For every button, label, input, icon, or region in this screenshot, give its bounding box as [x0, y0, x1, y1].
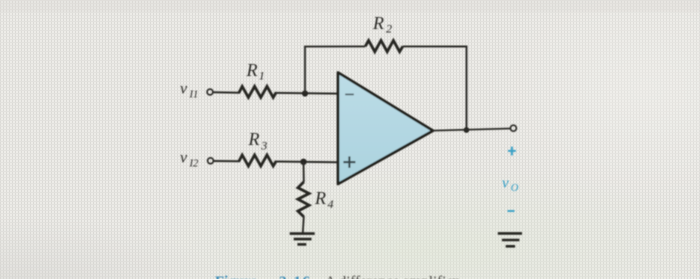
svg-text:v: v	[180, 150, 188, 167]
svg-text:R: R	[246, 60, 258, 80]
svg-text:R: R	[248, 129, 260, 149]
label vI1	[180, 81, 198, 101]
label vI2	[180, 150, 199, 170]
svg-text:4: 4	[328, 197, 334, 211]
terminal vI2	[208, 158, 214, 164]
svg-text:I2: I2	[189, 158, 199, 169]
wire	[214, 160, 240, 162]
svg-text:v: v	[502, 175, 509, 191]
caption Figure 2.16 (cut off at bottom edge)	[215, 274, 467, 279]
svg-text:Figure: Figure	[215, 274, 258, 279]
terminal vO	[510, 125, 516, 131]
resistor R2	[365, 41, 403, 52]
label R2	[372, 13, 392, 36]
svg-text:A difference amplifier.: A difference amplifier.	[325, 274, 461, 279]
label + output polarity	[508, 147, 516, 156]
resistor R4	[298, 182, 309, 217]
resistor R1	[239, 86, 276, 97]
op-amp inverting pin mark	[345, 93, 354, 95]
wire	[213, 91, 240, 94]
op-amp non-inverting pin mark	[343, 156, 355, 167]
wire output	[433, 129, 511, 131]
node output junction	[464, 127, 470, 133]
label vO	[502, 175, 519, 194]
wire to R4	[303, 162, 305, 182]
wire feedback top right	[403, 45, 468, 47]
label - output polarity	[508, 210, 515, 212]
node non-inverting-input junction	[300, 159, 306, 165]
wire	[276, 161, 338, 164]
svg-text:O: O	[511, 183, 519, 194]
label R1	[246, 60, 265, 83]
svg-text:R: R	[372, 13, 384, 33]
op-amp U1	[338, 73, 433, 185]
wire feedback right vertical	[466, 47, 468, 131]
wire to ground	[303, 217, 304, 233]
label R4	[314, 188, 334, 211]
resistor R3	[239, 155, 276, 166]
svg-text:2: 2	[386, 22, 392, 36]
svg-text:2.16: 2.16	[279, 274, 312, 279]
wire feedback left vertical	[304, 47, 306, 94]
svg-text:1: 1	[259, 69, 265, 83]
ground output reference	[498, 233, 522, 246]
svg-text:3: 3	[260, 139, 267, 153]
label R3	[248, 129, 268, 153]
svg-text:R: R	[314, 188, 326, 208]
svg-text:I1: I1	[189, 89, 199, 100]
wire feedback top left	[304, 45, 365, 47]
svg-text:v: v	[180, 81, 188, 98]
node inverting-input junction	[302, 90, 308, 96]
terminal vI1	[207, 89, 213, 95]
ground below R4	[290, 234, 315, 245]
wire	[276, 92, 338, 95]
